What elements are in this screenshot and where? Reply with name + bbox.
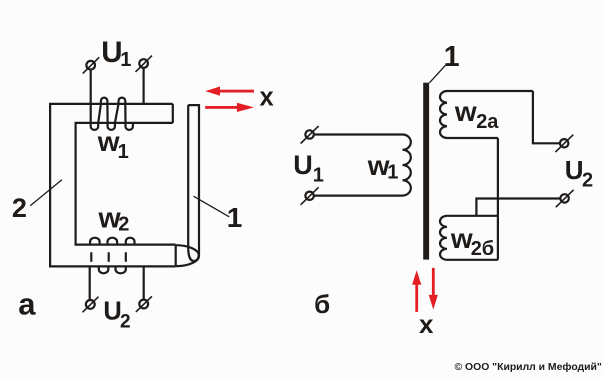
svg-text:w1: w1 xyxy=(367,150,399,184)
svg-text:© ООО "Кирилл и Мефодий": © ООО "Кирилл и Мефодий" xyxy=(455,361,602,373)
svg-text:1: 1 xyxy=(444,41,460,73)
terminal U2 top (fig b) xyxy=(555,135,573,152)
svg-text:2: 2 xyxy=(12,193,27,223)
svg-text:w2: w2 xyxy=(98,202,130,235)
wire U2 right lead (fig a) xyxy=(143,266,145,300)
red arrow up (fig b, displacement x) xyxy=(412,270,421,312)
svg-text:х: х xyxy=(419,309,434,339)
core yoke 2 (fig a, C-shaped magnetic core) xyxy=(50,104,176,267)
label 1 with leader line (fig a) xyxy=(194,196,243,233)
rounded end cap of core bottom bar (fig a) xyxy=(176,245,199,266)
wire U2 left lead (fig a) xyxy=(89,266,91,300)
svg-text:U1: U1 xyxy=(101,36,131,71)
coil w2 (fig a) - hidden wire dashes xyxy=(91,252,126,262)
coil w2b with lead wires (fig b) xyxy=(440,216,498,260)
svg-text:U1: U1 xyxy=(293,150,324,186)
terminal U2 right (fig a) xyxy=(136,296,152,312)
terminal U1 bottom (fig b) xyxy=(301,187,319,205)
wire from w2a to terminal U2 top (fig b) xyxy=(533,91,561,143)
label 2 with leader line (fig a) xyxy=(12,180,62,223)
tap wire from U2 bottom terminal to junction (fig b) xyxy=(476,199,560,216)
label 1 with leader line (fig b) xyxy=(429,41,459,83)
svg-text:1: 1 xyxy=(227,202,243,233)
terminal U2 left (fig a) xyxy=(83,297,99,313)
coil w2a with lead wires (fig b) xyxy=(440,91,533,138)
coil w1 (fig a) xyxy=(91,98,133,130)
svg-text:U2: U2 xyxy=(103,298,130,333)
wire junction w2a-w2b vertical (fig b) xyxy=(497,138,499,260)
svg-text:U2: U2 xyxy=(565,155,593,192)
wire U1 left lead (fig a) xyxy=(90,69,92,123)
red arrow pointing left (fig a, displacement x) xyxy=(205,87,254,96)
red arrow pointing right (fig a, displacement x) xyxy=(205,103,254,112)
core rod 1 (fig b, straight magnetic core) xyxy=(423,83,429,260)
red arrow down (fig b, displacement x) xyxy=(429,268,438,310)
svg-text:а: а xyxy=(18,286,36,321)
terminal U1 right (fig a) xyxy=(136,56,153,72)
svg-text:w1: w1 xyxy=(97,126,129,163)
wire U1 right lead (fig a) xyxy=(143,68,145,104)
coil w2 (fig a) - lower arcs xyxy=(99,266,126,273)
coil w1 with lead wires (fig b) xyxy=(314,135,411,196)
short-circuited movable plate 1 (fig a) xyxy=(188,105,199,261)
svg-text:б: б xyxy=(314,289,330,319)
terminal U1 top (fig b) xyxy=(301,126,319,144)
svg-text:w2а: w2а xyxy=(454,96,499,133)
svg-text:x: x xyxy=(260,84,274,112)
terminal U1 left (fig a) xyxy=(83,57,99,73)
terminal U2 bottom (fig b) xyxy=(556,190,574,207)
svg-text:w2б: w2б xyxy=(450,223,494,260)
coil w2 (fig a) - upper arcs xyxy=(90,238,134,245)
